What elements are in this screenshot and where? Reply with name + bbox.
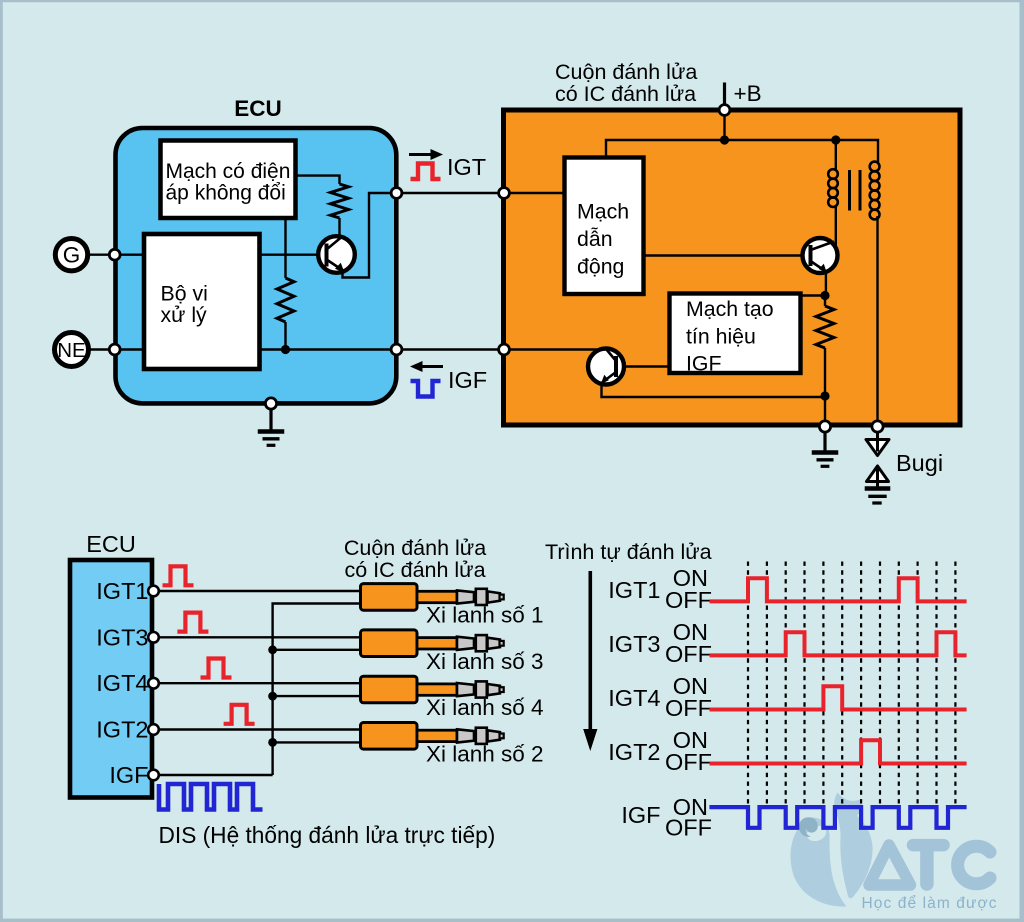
svg-text:IGF: IGF <box>448 367 487 393</box>
logo ATC <box>791 793 998 913</box>
wire coil return bus <box>273 604 362 776</box>
label IGF row <box>621 794 712 841</box>
wire +B to rail <box>723 110 725 140</box>
waveform IGT3 <box>710 632 967 655</box>
terminal NE <box>55 333 89 367</box>
terminal G <box>55 239 87 271</box>
+B terminal <box>725 81 762 110</box>
ignition coil secondary <box>870 162 880 220</box>
label IGT2 row <box>608 727 712 775</box>
svg-text:Xi lanh số 4: Xi lanh số 4 <box>426 695 544 720</box>
label IGT3 row <box>608 619 712 667</box>
svg-text:Bugi: Bugi <box>896 450 943 476</box>
ground ECU <box>258 404 285 446</box>
svg-text:áp không đổi: áp không đổi <box>166 182 286 205</box>
IGT1 pulse <box>163 566 194 585</box>
node IGT3 <box>148 632 159 643</box>
svg-text:NE: NE <box>57 339 85 362</box>
waveform IGT1 <box>710 578 967 601</box>
wire IGF <box>152 774 273 776</box>
wire NE to net <box>89 348 146 350</box>
wire Q3 base <box>624 365 670 367</box>
label Cuon danh lua (DIS) <box>344 536 486 582</box>
IGT signal symbol <box>409 149 443 179</box>
svg-text:Mạch: Mạch <box>577 200 629 224</box>
svg-text:có IC đánh lửa: có IC đánh lửa <box>555 82 696 106</box>
svg-text:DIS (Hệ thống đánh lửa trực ti: DIS (Hệ thống đánh lửa trực tiếp) <box>159 822 496 848</box>
svg-text:Mạch có điện: Mạch có điện <box>166 160 291 183</box>
svg-text:Học để làm được: Học để làm được <box>862 895 998 912</box>
label IGT1 row <box>608 565 712 613</box>
svg-text:OFF: OFF <box>665 749 712 775</box>
node igniter IGT in <box>499 188 510 199</box>
wire rail to primary coil <box>835 140 837 171</box>
junction dot R2/NE <box>281 345 290 354</box>
svg-text:OFF: OFF <box>665 641 712 667</box>
box: Mach co dien ap khong doi <box>161 141 296 219</box>
svg-text:Xi lanh số 2: Xi lanh số 2 <box>426 741 544 766</box>
wire Q3 emitter to ground net <box>602 384 824 397</box>
igniter block <box>504 110 961 425</box>
svg-text:IGT2: IGT2 <box>608 739 660 765</box>
svg-text:Cuộn đánh lửa: Cuộn đánh lửa <box>344 536 486 560</box>
svg-text:Trình tự đánh lửa: Trình tự đánh lửa <box>545 540 712 564</box>
svg-text:ECU: ECU <box>234 96 282 121</box>
svg-text:Mạch tạo: Mạch tạo <box>686 297 774 321</box>
node IGT1 <box>148 586 159 597</box>
junction dot rail to primary <box>831 135 840 144</box>
sequence arrow <box>583 571 597 751</box>
svg-text:IGF: IGF <box>621 802 660 828</box>
svg-text:G: G <box>63 243 81 268</box>
svg-text:Xi lanh số 1: Xi lanh số 1 <box>426 603 544 628</box>
svg-text:+B: +B <box>734 81 762 106</box>
wire supply rail <box>606 140 878 163</box>
waveform IGF <box>709 807 966 828</box>
node IGF <box>148 770 159 781</box>
wire G to microprocessor <box>89 253 146 255</box>
wire driver to Q2 base <box>644 254 811 256</box>
waveform IGT4 <box>710 686 967 709</box>
svg-text:IGT4: IGT4 <box>96 670 148 696</box>
junction dot +B rail <box>720 135 729 144</box>
svg-text:có IC đánh lửa: có IC đánh lửa <box>344 558 485 582</box>
transistor Q1 <box>318 236 355 273</box>
wire IGT4 <box>152 682 362 684</box>
wire IGT3 <box>152 636 362 638</box>
wire box1 to resistor R2 <box>284 219 286 278</box>
junction dot bus 3 <box>268 692 277 701</box>
transistor Q3 <box>588 349 624 385</box>
svg-text:OFF: OFF <box>665 815 712 841</box>
node igniter IGF out <box>499 344 510 355</box>
svg-text:OFF: OFF <box>665 587 712 613</box>
svg-text:dẫn: dẫn <box>577 226 613 251</box>
node IGT2 <box>148 724 159 735</box>
ignition coil primary <box>828 169 838 207</box>
coil core <box>850 170 861 211</box>
node G <box>109 249 120 260</box>
ignition coil cylinder 4 <box>361 676 504 703</box>
ECU DIS block <box>70 560 152 798</box>
box: Bo vi xu ly <box>144 234 260 369</box>
resistor R3 <box>816 296 834 397</box>
label Cuon danh lua co IC danh lua <box>555 60 697 106</box>
svg-text:ECU: ECU <box>86 531 136 557</box>
wire IGT ECU to igniter <box>397 192 505 194</box>
spark plug Bugi <box>865 427 891 504</box>
junction dot Q2 emitter <box>820 291 829 300</box>
ignition coil cylinder 2 <box>361 723 504 750</box>
resistor R2 <box>277 278 294 322</box>
wire IGT to driver box <box>504 192 566 194</box>
svg-text:Cuộn đánh lửa: Cuộn đánh lửa <box>555 60 697 84</box>
svg-text:IGT3: IGT3 <box>96 624 148 650</box>
node NE <box>109 344 120 355</box>
svg-text:Bộ vi: Bộ vi <box>161 282 208 306</box>
svg-text:IGT2: IGT2 <box>96 717 148 743</box>
junction dot R3 bottom <box>820 391 829 400</box>
svg-text:IGT1: IGT1 <box>608 577 660 603</box>
wire secondary coil to spark node <box>876 216 878 424</box>
wire return branch 2 <box>273 649 362 651</box>
svg-text:IGT1: IGT1 <box>96 578 148 604</box>
node ECU ground <box>265 398 276 409</box>
node +B <box>719 105 730 116</box>
ignition coil cylinder 1 <box>361 584 504 611</box>
wire Q1 emitter to IGT node <box>343 193 397 278</box>
wire R3 to ground node <box>824 396 826 424</box>
transistor Q2 <box>803 238 838 273</box>
ignition coil cylinder 3 <box>361 630 504 657</box>
svg-text:IGF: IGF <box>686 352 722 376</box>
IGF signal symbol <box>410 361 443 397</box>
wire return branch 3 <box>273 695 362 697</box>
box: Mach dan dong <box>565 158 644 295</box>
node spark plug <box>872 421 883 432</box>
wire IGT2 <box>152 728 362 730</box>
waveform IGT2 <box>710 740 967 763</box>
svg-text:IGT: IGT <box>447 154 486 180</box>
svg-text:IGT4: IGT4 <box>608 685 660 711</box>
svg-text:IGT3: IGT3 <box>608 631 660 657</box>
wire IGT1 <box>152 590 362 592</box>
svg-text:xử lý: xử lý <box>161 303 208 327</box>
IGT2 pulse <box>224 705 255 724</box>
wire IGF node to Q3 collector <box>504 348 606 350</box>
svg-text:Xi lanh số 3: Xi lanh số 3 <box>426 649 544 674</box>
box: Mach tao tin hieu IGF <box>670 294 801 376</box>
wire R1 to Q1 collector <box>338 218 340 238</box>
node IGF in <box>391 344 402 355</box>
wire IGF box to emitter node <box>803 294 826 296</box>
svg-text:động: động <box>577 255 624 279</box>
wire primary coil to Q2 collector <box>835 207 837 249</box>
ECU block <box>116 128 397 403</box>
svg-text:IGF: IGF <box>109 762 148 788</box>
IGF pulse train <box>159 784 263 810</box>
timing grid dashed lines <box>748 562 955 807</box>
svg-text:OFF: OFF <box>665 695 712 721</box>
wire constant-voltage box to resistor R1 <box>296 176 340 184</box>
IGT4 pulse <box>201 659 232 678</box>
wire Q2 emitter down <box>825 272 827 296</box>
svg-text:tín hiệu: tín hiệu <box>686 325 756 349</box>
wire microprocessor to Q1 base <box>259 253 327 255</box>
junction dot bus 2 <box>268 645 277 654</box>
node IGT out <box>391 188 402 199</box>
IGT3 pulse <box>177 613 208 632</box>
resistor R1 <box>331 184 349 218</box>
wire microprocessor to IGF node <box>259 348 397 350</box>
node igniter ground <box>819 421 830 432</box>
ground igniter <box>812 427 839 467</box>
node IGT4 <box>148 678 159 689</box>
junction dot bus 4 <box>268 738 277 747</box>
label IGT4 row <box>608 673 712 721</box>
wire return branch 4 <box>273 741 362 743</box>
wire IGF igniter to ECU <box>397 348 505 350</box>
wire R2 to NE net <box>284 322 286 350</box>
